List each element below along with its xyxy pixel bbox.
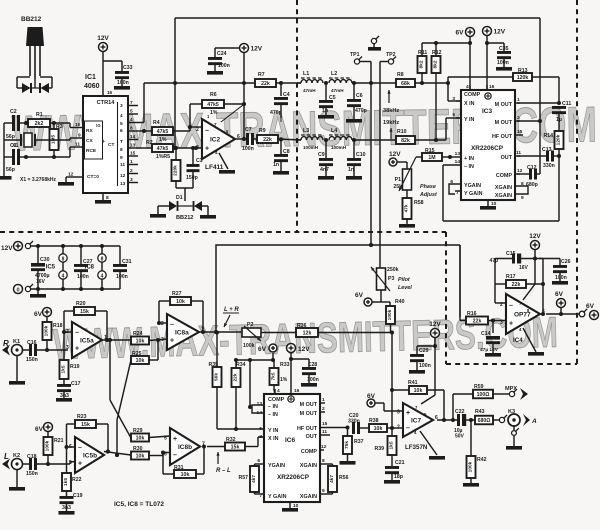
resistor R29 10k <box>131 428 170 442</box>
svg-text:10k: 10k <box>136 436 145 442</box>
svg-text:5: 5 <box>452 112 455 118</box>
svg-text:IC5, IC8 = TL072: IC5, IC8 = TL072 <box>114 501 164 508</box>
supply 12V input terminal <box>1 241 120 252</box>
supply 6V (IC3) <box>456 28 475 91</box>
svg-text:13: 13 <box>257 401 263 407</box>
svg-text:68k: 68k <box>401 81 410 87</box>
svg-text:12: 12 <box>120 173 126 179</box>
svg-text:11: 11 <box>516 150 521 156</box>
svg-text:5: 5 <box>164 435 167 441</box>
ground (IC1 pin12) <box>58 177 77 186</box>
svg-text:330n: 330n <box>543 163 555 169</box>
resistor R39 1k5 <box>374 428 396 466</box>
wire IC5a output <box>102 338 131 342</box>
svg-text:MPX: MPX <box>505 386 517 392</box>
wire top feedback bus <box>175 18 540 174</box>
svg-text:+: + <box>173 436 177 443</box>
svg-text:16: 16 <box>107 90 113 95</box>
svg-text:CTR14: CTR14 <box>97 100 116 106</box>
capacitor C13 330n <box>517 147 559 169</box>
svg-text:R57: R57 <box>238 475 248 481</box>
svg-text:220k: 220k <box>173 165 179 176</box>
svg-text:2: 2 <box>196 127 199 133</box>
wire IC4 output <box>546 312 579 316</box>
ground (IC2 pin4) <box>219 153 235 174</box>
svg-text:R40: R40 <box>395 299 405 305</box>
svg-text:15: 15 <box>322 421 328 427</box>
svg-text:8: 8 <box>101 257 104 263</box>
svg-text:8k2: 8k2 <box>433 60 439 68</box>
resistor R16 22k <box>460 245 506 325</box>
svg-text:HF OUT: HF OUT <box>297 426 318 432</box>
wire 12V to IC4 pin7 <box>523 284 535 300</box>
capacitor C33 100n <box>115 65 133 86</box>
capacitor C8 1n <box>273 140 290 175</box>
svg-text:100n: 100n <box>77 274 89 280</box>
svg-text:IC5b: IC5b <box>83 453 97 460</box>
svg-text:RCE: RCE <box>86 148 97 154</box>
svg-text:XGAIN: XGAIN <box>300 494 317 500</box>
ground (IC6 pin10) <box>282 502 299 512</box>
resistor R43 680R <box>475 409 499 424</box>
svg-text:+: + <box>205 145 209 152</box>
svg-text:R10: R10 <box>397 129 407 135</box>
svg-text:47µ: 47µ <box>490 258 499 264</box>
capacitor C2 56p <box>4 109 28 140</box>
svg-text:10k: 10k <box>374 426 383 432</box>
svg-text:4: 4 <box>120 113 123 119</box>
svg-text:+: + <box>102 139 105 145</box>
svg-text:10k: 10k <box>136 339 145 345</box>
svg-text:R14: R14 <box>543 133 553 139</box>
capacitor C4 470p <box>270 83 290 122</box>
wire IC8b output / R-L <box>207 446 225 448</box>
svg-text:13: 13 <box>120 181 126 187</box>
svg-text:7: 7 <box>130 100 133 106</box>
supply 12V (IC4) <box>529 233 541 284</box>
svg-text:+: + <box>75 345 79 352</box>
svg-text:13: 13 <box>130 143 136 149</box>
svg-text:1%: 1% <box>280 377 288 383</box>
wire M OUT2 to top bus <box>517 119 542 123</box>
svg-text:– IN: – IN <box>268 412 278 418</box>
capacitor C15 47u <box>490 251 543 271</box>
svg-text:– IN: – IN <box>268 404 278 410</box>
wire 12V to IC1 pin16 <box>102 52 104 97</box>
resistor R14 120k <box>543 131 563 158</box>
svg-text:38kHz: 38kHz <box>383 108 399 114</box>
svg-text:+ IN: + IN <box>464 156 474 162</box>
svg-text:R13: R13 <box>518 68 528 74</box>
wire IC3 feedback bus <box>443 156 559 221</box>
svg-text:250k: 250k <box>387 267 399 273</box>
svg-text:50V: 50V <box>455 434 465 440</box>
connector K1 input R <box>2 339 29 356</box>
resistor R6 47k5 feedback <box>190 92 246 127</box>
svg-text:L: L <box>4 452 9 461</box>
svg-text:100n: 100n <box>419 363 431 369</box>
svg-text:–: – <box>173 452 177 459</box>
svg-text:470p: 470p <box>270 110 282 116</box>
resistor R34 22k <box>232 360 246 431</box>
supply 12V (P1) <box>389 151 407 169</box>
svg-text:P2: P2 <box>247 322 253 328</box>
capacitor C35 100n <box>485 41 512 71</box>
svg-text:1n: 1n <box>322 108 328 114</box>
svg-text:680Ω: 680Ω <box>478 418 491 424</box>
svg-text:6V: 6V <box>456 29 465 36</box>
varactor diode pair symbol <box>17 77 52 93</box>
svg-text:6: 6 <box>120 128 123 134</box>
svg-text:47k5: 47k5 <box>157 129 169 135</box>
svg-text:LF411: LF411 <box>205 164 224 171</box>
supply 12V (IC3) <box>483 27 506 91</box>
connector MPX out <box>505 386 528 400</box>
capacitor C26 100n <box>539 259 571 285</box>
svg-text:COMP: COMP <box>301 449 318 455</box>
resistor R21 100k <box>44 437 64 466</box>
supply 12V (IC2) <box>215 44 263 140</box>
svg-text:100k: 100k <box>243 343 255 349</box>
svg-text:1: 1 <box>322 397 325 403</box>
svg-text:12V: 12V <box>298 346 310 353</box>
svg-text:14: 14 <box>257 410 263 416</box>
svg-text:7: 7 <box>456 190 459 196</box>
svg-text:IC8b: IC8b <box>178 444 192 451</box>
capacitor C31 100n <box>113 246 132 289</box>
svg-text:4: 4 <box>215 150 218 155</box>
svg-text:X IN: X IN <box>464 101 475 107</box>
svg-text:22k: 22k <box>263 137 272 143</box>
svg-text:COMP: COMP <box>268 397 285 403</box>
svg-text:R22: R22 <box>72 477 82 483</box>
supply 6V (IC7) <box>367 393 403 411</box>
svg-text:C30: C30 <box>40 257 50 263</box>
ground (IC3 pin10) <box>480 200 497 210</box>
supply 6V (R21) <box>35 423 52 438</box>
svg-text:2: 2 <box>517 115 520 121</box>
terminal 0V <box>14 284 121 294</box>
svg-text:M OUT: M OUT <box>300 411 318 417</box>
svg-text:10k: 10k <box>176 299 185 305</box>
wire IC7 output <box>437 418 457 422</box>
potentiometer P1 25k Phase Adjust <box>393 157 437 198</box>
wire matrix cross R <box>115 360 131 457</box>
svg-text:470p: 470p <box>355 108 367 114</box>
resistor R10 82k <box>396 118 461 144</box>
svg-text:2k2: 2k2 <box>35 121 44 127</box>
wire 6V rail (IC3 top) <box>422 41 472 45</box>
svg-text:Y GAIN: Y GAIN <box>268 494 287 500</box>
resistor R31 10k feedback <box>163 445 206 479</box>
ground (IC4 pin4) <box>523 328 544 356</box>
svg-text:150n: 150n <box>26 471 38 477</box>
supply 6V (R18) <box>34 308 51 323</box>
svg-text:C21: C21 <box>395 460 405 466</box>
svg-text:– IN: – IN <box>464 164 474 170</box>
IC8 power pins <box>85 244 107 291</box>
resistor R23 15k feedback <box>65 414 111 454</box>
svg-text:100k: 100k <box>468 461 474 472</box>
capacitor C20 330n <box>346 413 370 434</box>
resistor R13 120k <box>448 68 559 103</box>
svg-text:X IN: X IN <box>268 436 279 442</box>
svg-text:2: 2 <box>130 168 133 174</box>
svg-text:R43: R43 <box>475 409 485 415</box>
connector K2 input L <box>2 452 29 470</box>
svg-text:4k7: 4k7 <box>329 475 335 483</box>
svg-text:56p: 56p <box>6 134 15 140</box>
svg-text:9: 9 <box>78 133 81 139</box>
capacitor C10 1n <box>346 140 366 180</box>
capacitor C14 47u <box>480 321 500 354</box>
wire bracket feed <box>248 360 252 409</box>
wire Y IN row (IC6) <box>217 428 264 430</box>
ground (R58) <box>399 224 415 228</box>
svg-text:XR2206CP: XR2206CP <box>277 474 310 481</box>
svg-text:7: 7 <box>214 122 217 127</box>
resistor R8 68k <box>396 72 450 87</box>
capacitor C29 100n <box>409 346 435 374</box>
ground (C19) <box>59 511 75 515</box>
svg-text:0: 0 <box>16 288 19 294</box>
svg-text:25k: 25k <box>393 184 402 190</box>
svg-text:3: 3 <box>66 345 69 351</box>
svg-text:R39: R39 <box>374 446 384 452</box>
supply 12V (IC6) <box>287 344 311 395</box>
svg-text:12V: 12V <box>529 233 541 240</box>
svg-text:100n: 100n <box>218 63 230 69</box>
capacitor C18 150n <box>26 454 75 477</box>
supply 12V (IC1) <box>97 35 109 52</box>
svg-text:R56: R56 <box>339 475 349 481</box>
svg-text:IC2: IC2 <box>210 137 221 144</box>
svg-text:IC3: IC3 <box>482 108 493 115</box>
svg-text:IC7: IC7 <box>411 418 422 425</box>
capacitor C12 680p <box>517 165 540 188</box>
svg-text:XGAIN: XGAIN <box>495 185 512 191</box>
svg-text:IC5a: IC5a <box>80 338 94 345</box>
svg-text:C31: C31 <box>122 259 132 265</box>
svg-text:100Ω: 100Ω <box>477 392 490 398</box>
svg-text:8: 8 <box>130 126 133 132</box>
ground (D1 right) <box>200 206 216 219</box>
IC1 bottom pin 8 <box>103 193 109 201</box>
svg-text:22k: 22k <box>473 319 482 325</box>
ground (K2) <box>9 470 25 491</box>
svg-text:–: – <box>406 425 410 432</box>
svg-text:C29: C29 <box>419 348 429 354</box>
svg-text:4060: 4060 <box>84 83 100 90</box>
svg-text:16: 16 <box>489 84 495 90</box>
svg-text:IC8a: IC8a <box>175 330 189 337</box>
svg-text:1: 1 <box>517 97 520 103</box>
wire IC5b output <box>104 452 131 458</box>
svg-text:3: 3 <box>196 145 199 151</box>
svg-text:100k: 100k <box>387 309 393 320</box>
svg-text:100k: 100k <box>44 325 50 336</box>
svg-text:XGAIN: XGAIN <box>300 463 317 469</box>
svg-text:TP1: TP1 <box>350 52 360 58</box>
resistor R57 4k7 <box>238 464 259 494</box>
supply 6V (IC4 out) <box>555 291 566 314</box>
varactor D1 BB212 <box>158 188 208 221</box>
IC1 right pins <box>128 100 138 183</box>
svg-text:12V: 12V <box>1 245 13 252</box>
svg-text:IC6: IC6 <box>285 437 296 444</box>
wire to C33 <box>103 61 122 71</box>
capacitor C28 100n <box>291 359 319 387</box>
resistor R5 220k <box>163 146 180 188</box>
capacitor C17 3n3 <box>57 379 81 399</box>
svg-text:56p: 56p <box>6 167 15 173</box>
svg-text:X1 = 3.2768kHz: X1 = 3.2768kHz <box>20 177 56 183</box>
svg-text:2: 2 <box>322 406 325 412</box>
svg-text:120k: 120k <box>556 134 562 145</box>
svg-text:C19: C19 <box>73 493 83 499</box>
svg-text:5: 5 <box>69 460 72 466</box>
svg-text:15: 15 <box>517 129 523 135</box>
svg-text:47k: 47k <box>404 204 410 212</box>
ground (C17) <box>56 398 72 402</box>
svg-text:L2: L2 <box>331 71 337 77</box>
svg-text:R37: R37 <box>354 439 364 445</box>
svg-text:M OUT: M OUT <box>495 102 513 108</box>
svg-text:4: 4 <box>277 388 280 394</box>
wire matrix cross L <box>110 340 131 438</box>
wire left rail <box>3 123 5 176</box>
svg-text:6V: 6V <box>258 346 267 353</box>
potentiometer P3 250k Pilot Level <box>371 267 412 302</box>
svg-text:8: 8 <box>62 257 65 263</box>
svg-text:14: 14 <box>455 159 461 165</box>
svg-text:C3: C3 <box>196 158 203 164</box>
supply 6V (P3) <box>355 292 390 306</box>
svg-text:1%: 1% <box>210 110 218 116</box>
svg-text:100n: 100n <box>497 60 509 66</box>
svg-text:100n: 100n <box>117 80 129 86</box>
resistor R18 100k <box>43 322 63 352</box>
svg-text:47k5: 47k5 <box>207 102 219 108</box>
wire TP1 drop to L+R bus <box>369 81 373 247</box>
svg-text:120k: 120k <box>517 75 529 81</box>
wire summing node column <box>390 333 394 431</box>
svg-text:12V: 12V <box>389 151 401 158</box>
svg-text:2: 2 <box>161 321 164 327</box>
svg-text:9: 9 <box>322 488 325 494</box>
svg-text:R19: R19 <box>70 364 80 370</box>
resistor R33 7k5 <box>270 358 290 394</box>
svg-text:6V: 6V <box>355 292 364 299</box>
svg-text:3: 3 <box>161 337 164 343</box>
svg-text:M OUT: M OUT <box>300 402 318 408</box>
ground (IC7 pin4) <box>420 431 445 460</box>
svg-text:150p: 150p <box>186 175 198 181</box>
resistor R40 100k <box>386 299 405 333</box>
capacitor C21 18p <box>384 460 405 484</box>
svg-text:5: 5 <box>259 426 262 432</box>
svg-text:Pilot: Pilot <box>398 277 410 283</box>
svg-text:6: 6 <box>257 458 260 464</box>
svg-text:4n7: 4n7 <box>320 167 329 173</box>
svg-text:OUT: OUT <box>501 155 513 161</box>
resistor R4 47k5 <box>138 120 202 143</box>
svg-text:14: 14 <box>130 134 136 140</box>
resistor R2 47k5 <box>138 140 202 160</box>
svg-text:–: – <box>170 322 174 329</box>
resistor R36 12k <box>296 323 394 337</box>
wire IC2 output node <box>235 137 246 141</box>
svg-text:IC8: IC8 <box>85 265 95 271</box>
op-amp IC5a <box>66 322 107 358</box>
svg-text:75k: 75k <box>344 441 350 449</box>
wire bottom of crystal net <box>24 147 77 159</box>
ground (IC1) <box>95 200 111 204</box>
svg-text:R21: R21 <box>54 438 64 444</box>
svg-text:6V: 6V <box>34 311 43 318</box>
op-amp IC7 LF357N <box>397 403 438 451</box>
svg-text:COMP: COMP <box>464 92 481 98</box>
svg-text:+: + <box>509 320 513 327</box>
svg-text:R – L: R – L <box>216 468 231 474</box>
op-amp IC4 OP77 <box>495 294 545 344</box>
resistor R15 1M <box>422 148 452 161</box>
svg-text:12: 12 <box>321 444 327 450</box>
svg-text:19kHz: 19kHz <box>383 120 399 126</box>
svg-text:IC5: IC5 <box>46 265 56 271</box>
svg-text:7k5: 7k5 <box>271 372 277 380</box>
svg-text:18p: 18p <box>394 474 403 480</box>
test point ground connector <box>368 36 381 51</box>
svg-text:CT=0: CT=0 <box>87 174 99 180</box>
svg-text:47k5: 47k5 <box>157 146 169 152</box>
svg-text:R7: R7 <box>258 72 265 78</box>
wire <box>11 96 597 369</box>
capacitor C3 150p <box>186 146 203 188</box>
svg-text:4k7: 4k7 <box>251 475 257 483</box>
svg-text:Phase: Phase <box>420 184 436 190</box>
svg-text:C35: C35 <box>499 46 509 52</box>
svg-text:HF OUT: HF OUT <box>492 134 513 140</box>
svg-text:82k: 82k <box>401 138 410 144</box>
svg-text:–: – <box>205 128 209 135</box>
svg-text:100n: 100n <box>555 275 567 281</box>
svg-text:15k: 15k <box>231 445 240 451</box>
svg-text:13: 13 <box>455 151 461 157</box>
svg-text:XGAIN: XGAIN <box>495 193 512 199</box>
svg-text:P3: P3 <box>388 276 394 282</box>
svg-text:12V: 12V <box>97 35 109 42</box>
svg-text:22k: 22k <box>233 373 239 381</box>
svg-text:Y GAIN: Y GAIN <box>464 191 483 197</box>
resistor R35 56k <box>208 331 221 430</box>
capacitor C9 4n7 <box>318 140 334 180</box>
svg-text:4: 4 <box>466 84 469 90</box>
svg-text:3: 3 <box>500 320 503 326</box>
svg-text:47mH: 47mH <box>331 88 344 93</box>
label L+R <box>223 307 239 327</box>
svg-text:R8: R8 <box>397 72 404 78</box>
supply 12V (IC7) <box>429 321 441 348</box>
supply 6V (IC6 rail) <box>258 344 277 360</box>
svg-text:IC1: IC1 <box>85 74 96 81</box>
resistor R7 22k <box>255 72 301 87</box>
svg-text:C10: C10 <box>356 152 366 158</box>
capacitor C1 56p <box>4 143 26 173</box>
svg-text:10k: 10k <box>136 454 145 460</box>
ground (C14) <box>485 353 501 357</box>
svg-text:15k: 15k <box>80 309 89 315</box>
